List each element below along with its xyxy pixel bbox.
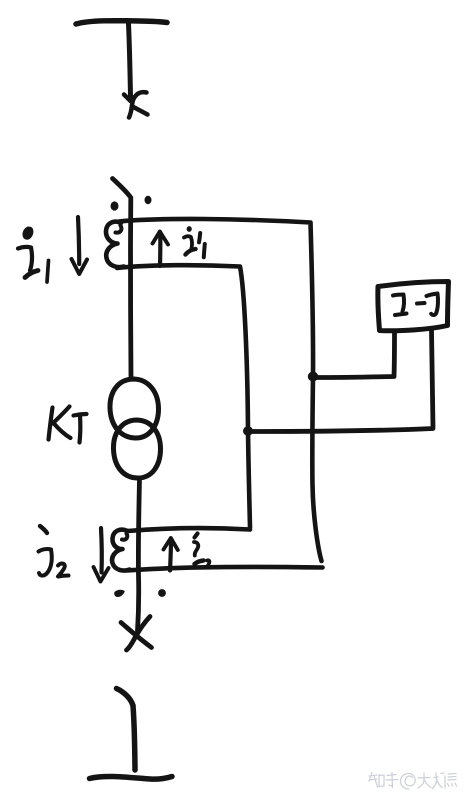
polarity dot (CT1 secondary) bbox=[145, 196, 152, 204]
wire (CT1 secondary top, to node J1 and CT2 secondary bottom) bbox=[119, 219, 322, 561]
wire (relay left lead to node J1) bbox=[316, 332, 395, 378]
label 1-1 bbox=[393, 294, 438, 316]
wire (bus I to breaker) bbox=[129, 24, 131, 96]
breaker x mark (bottom), stroke 1 bbox=[121, 623, 152, 648]
wire (CT1 primary drop to transformer) bbox=[113, 179, 132, 380]
breaker x mark (top), arrow barb bbox=[124, 95, 131, 102]
polarity dot (CT2 secondary) bbox=[158, 589, 166, 597]
label i2' bbox=[194, 534, 209, 568]
CT TA2 coil bbox=[112, 530, 129, 571]
breaker x mark (top), cross stroke bbox=[133, 107, 148, 115]
bus II (bottom busbar horizontal) bbox=[90, 777, 173, 780]
wire (CT2 secondary top) bbox=[128, 528, 250, 531]
wire (relay right lead to node J2) bbox=[249, 330, 433, 432]
polarity dot (CT2 primary) bbox=[114, 590, 125, 597]
bus I (top busbar horizontal) bbox=[76, 21, 167, 24]
label i1 bbox=[18, 228, 49, 282]
breaker x mark (bottom), stroke 2 bbox=[127, 617, 151, 651]
current arrow i1' (up, in CT1 loop) bbox=[158, 233, 163, 267]
transformer KT winding 1 bbox=[110, 379, 159, 438]
label i1' bbox=[184, 226, 205, 257]
wire (CT1 secondary bottom, to node J2 and CT2 secondary top) bbox=[117, 265, 250, 527]
label i2 bbox=[39, 526, 69, 577]
current arrow i2 (down, left of CT2) bbox=[99, 528, 104, 573]
breaker x mark (top), curved stroke bbox=[129, 92, 147, 117]
bus II (bottom busbar vertical) bbox=[117, 689, 136, 771]
current arrow i1 (down, left of CT1) bbox=[78, 217, 79, 264]
CT TA1 coil bbox=[106, 222, 124, 267]
wire (CT2 secondary bottom) bbox=[127, 567, 323, 571]
transformer KT winding 2 bbox=[113, 420, 160, 478]
polarity dot (CT1 primary) bbox=[111, 201, 119, 210]
watermark bbox=[369, 773, 457, 790]
label KT bbox=[49, 407, 87, 443]
wire (transformer to CT2 and bottom breaker) bbox=[138, 478, 140, 631]
current arrow i2' (up, in CT2 loop) bbox=[170, 539, 171, 571]
node J1 bbox=[308, 372, 318, 382]
node J2 bbox=[243, 426, 253, 436]
relay 1-1 box bbox=[378, 282, 449, 331]
